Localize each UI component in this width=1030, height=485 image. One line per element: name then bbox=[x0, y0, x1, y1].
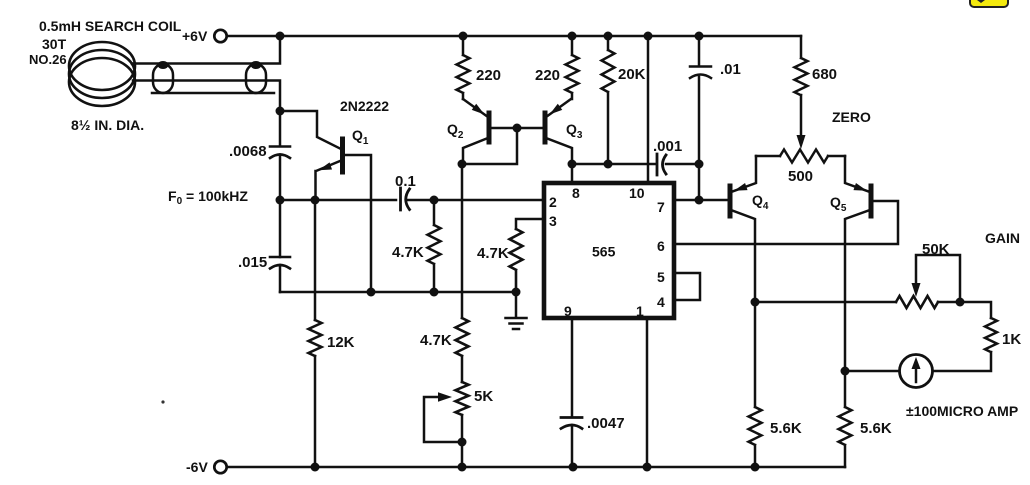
transistor Q3 bbox=[543, 113, 548, 142]
terminal +6V bbox=[214, 30, 226, 42]
junction 5K wiper bottom bbox=[458, 438, 467, 447]
resistor 12K bbox=[309, 320, 322, 356]
wire pin1 to -6V bbox=[646, 318, 649, 467]
junction Q2 Q3 bases bbox=[513, 124, 522, 133]
svg-text:1: 1 bbox=[636, 303, 644, 319]
svg-text:12K: 12K bbox=[327, 334, 355, 351]
svg-text:7: 7 bbox=[657, 199, 665, 215]
junction 0.1/4.7K top bbox=[430, 196, 439, 205]
junction pin1 bottom bbox=[643, 463, 652, 472]
resistor 1K bbox=[934, 318, 997, 371]
svg-text:5: 5 bbox=[657, 269, 665, 285]
svg-text:9: 9 bbox=[564, 303, 572, 319]
svg-text:10: 10 bbox=[629, 185, 645, 201]
junction 5K bottom bbox=[458, 463, 467, 472]
wire Q1 emitter to -6V bbox=[314, 200, 317, 467]
junction 220 Q2 top rail bbox=[459, 32, 468, 41]
wire cable top conductor bbox=[132, 36, 280, 64]
junction .01 top rail bbox=[695, 32, 704, 41]
meter M1 bbox=[900, 355, 933, 388]
svg-text:8: 8 bbox=[572, 185, 580, 201]
junction node at x=280 y=200 bbox=[276, 196, 285, 205]
svg-text:0.5mH SEARCH COIL: 0.5mH SEARCH COIL bbox=[39, 18, 182, 34]
junction 20K bottom bbox=[604, 160, 613, 169]
resistor 220 (Q3) bbox=[566, 36, 579, 99]
wire cable middle conductor bbox=[133, 81, 280, 112]
capacitor .01 bbox=[690, 36, 711, 200]
junction pin7 node bbox=[695, 196, 704, 205]
svg-text:-6V: -6V bbox=[186, 459, 208, 475]
junction pin10 rail bbox=[644, 32, 653, 41]
junction coil/Q1 collector bbox=[276, 107, 285, 116]
cable twist ring 2 bbox=[246, 64, 266, 93]
svg-text:Q1: Q1 bbox=[352, 127, 369, 147]
wiper 5K arrow bbox=[424, 397, 462, 442]
svg-text:5K: 5K bbox=[474, 388, 493, 405]
junction 20K top rail bbox=[604, 32, 613, 41]
svg-text:Q2: Q2 bbox=[447, 121, 464, 141]
capacitor .001 bbox=[657, 154, 666, 175]
wire +6V top rail bbox=[227, 35, 801, 38]
svg-text:NO.26: NO.26 bbox=[29, 52, 67, 67]
wire gain node y=302 bbox=[755, 302, 991, 318]
arrow 680 wiper bbox=[797, 135, 806, 149]
svg-text:4.7K: 4.7K bbox=[477, 245, 509, 262]
wire -6V bottom rail bbox=[227, 466, 845, 469]
transistor Q5 bbox=[869, 186, 874, 216]
resistor 5.6K (Q4) bbox=[749, 302, 762, 467]
resistor 4.7K (chain) bbox=[456, 318, 469, 356]
svg-text:±100MICRO AMP: ±100MICRO AMP bbox=[906, 403, 1018, 419]
svg-text:4.7K: 4.7K bbox=[420, 332, 452, 349]
capacitor .0047 bbox=[561, 418, 582, 429]
svg-text:ZERO: ZERO bbox=[832, 109, 871, 125]
wire pin7 to Q4 base bbox=[674, 199, 727, 202]
resistor 680 bbox=[795, 36, 808, 135]
svg-text:F0 = 100kHZ: F0 = 100kHZ bbox=[168, 188, 248, 207]
svg-text:GAIN: GAIN bbox=[985, 230, 1020, 246]
junction .001/.01 node bbox=[695, 160, 704, 169]
junction top rail at coil drop bbox=[276, 32, 285, 41]
wire coil node down bbox=[279, 111, 282, 292]
marker yellow tab bbox=[970, 0, 1008, 7]
junction Q1 emitter at y=200 bbox=[311, 196, 320, 205]
svg-text:.015: .015 bbox=[238, 254, 267, 271]
cable twist ring 1 bbox=[153, 64, 173, 93]
terminal -6V bbox=[214, 461, 226, 473]
junction Q1 base at y=292 bbox=[367, 288, 376, 297]
capacitor 0.1 bbox=[401, 188, 410, 210]
svg-text:3: 3 bbox=[549, 213, 557, 229]
svg-text:4.7K: 4.7K bbox=[392, 244, 424, 261]
svg-text:.0068: .0068 bbox=[229, 143, 267, 160]
potentiometer 500 bbox=[756, 150, 845, 163]
wire pin9 to .0047 bbox=[571, 318, 574, 467]
wire cable bottom strand bbox=[152, 92, 274, 95]
wire pin8 drop bbox=[571, 164, 574, 182]
junction Q3 collector bbox=[568, 160, 577, 169]
svg-text:220: 220 bbox=[535, 67, 560, 84]
transistor Q4 bbox=[728, 186, 733, 216]
wire pin10 drop bbox=[647, 36, 650, 182]
wire oscillator node y=200 bbox=[280, 199, 543, 202]
svg-text:5.6K: 5.6K bbox=[860, 420, 892, 437]
junction ground node bbox=[512, 288, 521, 297]
svg-text:5.6K: 5.6K bbox=[770, 420, 802, 437]
junction cable ring 2 bbox=[251, 61, 262, 69]
junction 12K bottom bbox=[311, 463, 320, 472]
wire pin6 to Q5 base bbox=[674, 201, 898, 244]
junction Q2 collector bbox=[458, 160, 467, 169]
junction 4.7K bottom at y=292 bbox=[430, 288, 439, 297]
wire mirror collector node y=164 bbox=[572, 163, 699, 166]
junction 50K right end bbox=[956, 298, 965, 307]
search coil L1 bbox=[69, 42, 135, 106]
resistor 20K bbox=[602, 36, 615, 164]
svg-text:+6V: +6V bbox=[182, 28, 208, 44]
resistor 4.7K (pin3) bbox=[510, 229, 523, 292]
junction 5.6K bottom bbox=[751, 463, 760, 472]
potentiometer 5K bbox=[456, 382, 469, 415]
transistor Q1 bbox=[340, 139, 345, 172]
wire pin5 pin4 loop bbox=[674, 273, 700, 300]
junction .0047 bottom bbox=[569, 463, 578, 472]
svg-text:500: 500 bbox=[788, 168, 813, 185]
svg-text:.0047: .0047 bbox=[587, 415, 625, 432]
transistor Q2 bbox=[487, 113, 492, 142]
junction Q5 collector meter bbox=[841, 367, 850, 376]
IC U1 565 box bbox=[544, 183, 674, 318]
wiper 50K bbox=[916, 255, 960, 302]
svg-text:.001: .001 bbox=[653, 138, 682, 155]
scan speck bbox=[161, 400, 164, 403]
wire pin3 to 4.7K bbox=[516, 219, 544, 229]
svg-text:Q5: Q5 bbox=[830, 194, 847, 214]
wire Q2 collector to bases bbox=[462, 128, 517, 164]
capacitor .015 bbox=[270, 257, 290, 269]
svg-text:220: 220 bbox=[476, 67, 501, 84]
ground bbox=[506, 292, 527, 329]
junction 220 Q3 top rail bbox=[568, 32, 577, 41]
svg-text:6: 6 bbox=[657, 238, 665, 254]
junction Q4 collector gain node bbox=[751, 298, 760, 307]
wire feedback node y=292 bbox=[280, 291, 516, 294]
svg-text:Q3: Q3 bbox=[566, 121, 583, 141]
resistor 4.7K (pin2 bias) bbox=[428, 200, 441, 292]
resistor 220 (Q2) bbox=[457, 36, 470, 99]
svg-text:565: 565 bbox=[592, 244, 616, 260]
junction cable ring 1 bbox=[158, 61, 169, 69]
svg-text:680: 680 bbox=[812, 66, 837, 83]
svg-text:0.1: 0.1 bbox=[395, 173, 416, 190]
svg-text:Q4: Q4 bbox=[752, 192, 769, 212]
svg-text:2N2222: 2N2222 bbox=[340, 98, 389, 114]
resistor 5.6K (Q5) bbox=[839, 371, 852, 467]
svg-text:2: 2 bbox=[549, 194, 557, 210]
svg-text:30T: 30T bbox=[42, 36, 67, 52]
svg-text:.01: .01 bbox=[720, 61, 741, 78]
potentiometer 50K bbox=[896, 296, 938, 308]
svg-text:4: 4 bbox=[657, 294, 665, 310]
wire meter left bbox=[845, 370, 898, 373]
capacitor .0068 bbox=[270, 147, 290, 159]
svg-text:20K: 20K bbox=[618, 66, 646, 83]
wire Q2 collector down chain bbox=[461, 164, 464, 467]
svg-text:1K: 1K bbox=[1002, 331, 1021, 348]
svg-text:8½ IN. DIA.: 8½ IN. DIA. bbox=[71, 117, 144, 133]
